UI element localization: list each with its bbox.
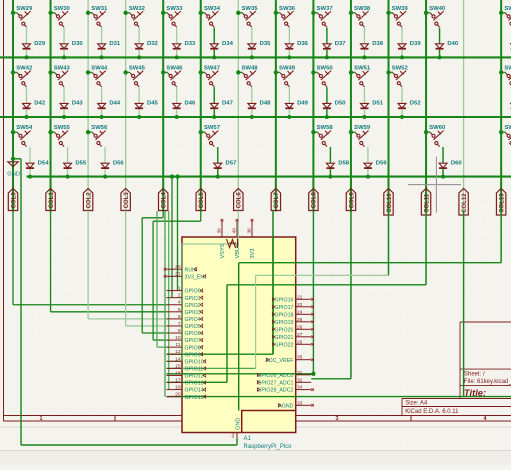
wire drop to GPIO11 row [255, 275, 257, 368]
svg-text:GPIO20: GPIO20 [274, 327, 293, 333]
svg-text:D59: D59 [376, 160, 388, 166]
switch SW54 [17, 131, 30, 147]
key cell SW47/D47 [199, 70, 203, 74]
diode D56 [101, 163, 109, 168]
key cell SW44/D44 [86, 70, 90, 74]
pin 34 GPIO28_ADC2 [296, 389, 312, 391]
switch SW42 [17, 71, 30, 87]
wire diode to row bus [329, 169, 331, 177]
svg-text:D39: D39 [410, 41, 422, 47]
svg-text:GPIO9: GPIO9 [185, 352, 201, 358]
svg-text:GPIO8: GPIO8 [185, 345, 201, 351]
key cell SW51/D51 [349, 70, 353, 74]
wire column COL0 [12, 0, 14, 212]
svg-text:SW56: SW56 [91, 125, 108, 131]
svg-text:16: 16 [175, 370, 181, 376]
sheet border bottom double line with zone ticks [4, 415, 511, 417]
junction diode D36 on bus [287, 55, 291, 59]
svg-text:COL10: COL10 [387, 193, 393, 213]
svg-text:SW48: SW48 [242, 65, 259, 71]
wire switch to diode [138, 28, 140, 44]
diode D44 [98, 103, 106, 108]
junction diode D32 on bus [137, 55, 141, 59]
svg-text:SW36: SW36 [279, 6, 296, 12]
wire switch to diode [217, 147, 219, 163]
svg-text:GPIO6: GPIO6 [185, 331, 201, 337]
svg-text:File: 61key.kicad_sch: File: 61key.kicad_sch [464, 379, 511, 385]
junction diode D57 on bus [216, 175, 220, 179]
junction diode D29 on bus [25, 55, 29, 59]
svg-text:D58: D58 [338, 160, 350, 166]
svg-text:SW45: SW45 [129, 65, 146, 71]
svg-text:3V3: 3V3 [250, 249, 256, 259]
svg-text:D36: D36 [297, 41, 309, 47]
diode D31 [98, 44, 106, 49]
wire switch to diode [288, 28, 290, 44]
COL11 elbow to drop x=227 [425, 211, 427, 285]
svg-text:7: 7 [178, 321, 181, 327]
junction diode D50 on bus [325, 115, 329, 119]
junction diode D58 on bus [328, 175, 332, 179]
key cell SW61/D61 [499, 130, 503, 134]
key cell SW46/D46 [161, 70, 165, 74]
wire diode to row bus [363, 50, 365, 58]
key cell SW57/D57 [199, 130, 203, 134]
wire GPIO15 row crossing chip to right sheet edge [167, 396, 511, 398]
key cell SW39/D39 [386, 11, 390, 15]
chip bottom pin 3 GND [236, 433, 238, 438]
switch SW41 [506, 11, 511, 27]
key cell SW37/D37 [311, 11, 315, 15]
diode D45 [135, 103, 143, 108]
key cell SW60/D60 [424, 130, 428, 134]
svg-text:D60: D60 [451, 160, 463, 166]
wire diode to row bus [251, 50, 253, 58]
wire column COL11 [425, 0, 427, 212]
switch SW49 [280, 71, 293, 87]
pin 37 3V3_EN [167, 275, 183, 277]
svg-text:COL4: COL4 [162, 192, 168, 209]
wire GPIO12/GPIO26 shared row crossing chip to COL8 [167, 373, 314, 375]
pin 36 3V3 [251, 222, 253, 238]
svg-text:Size: A4: Size: A4 [405, 400, 428, 406]
svg-text:D40: D40 [447, 41, 459, 47]
wire switch to diode [251, 87, 253, 103]
wire GPIO27_ADC1 to COL9 [311, 378, 351, 380]
key cell SW53/D53 [499, 70, 503, 74]
wire column COL7 [275, 0, 277, 212]
global label COL5 [196, 189, 205, 211]
wire row bus ROW3 [0, 116, 511, 118]
global label COL2 [83, 189, 92, 211]
svg-text:COL7: COL7 [274, 192, 280, 209]
svg-text:SW53: SW53 [504, 65, 511, 71]
svg-text:SW52: SW52 [392, 65, 409, 71]
svg-text:COL13: COL13 [499, 193, 505, 213]
pin 29 GPIO22 [296, 343, 312, 345]
wire switch to diode [363, 87, 365, 103]
svg-text:40: 40 [232, 228, 238, 234]
key cell SW31/D31 [86, 11, 90, 15]
svg-text:GND: GND [235, 418, 241, 430]
pin 20 GPIO15 [167, 396, 183, 398]
key cell SW56/D56 [86, 130, 90, 134]
wire switch to diode [213, 87, 215, 103]
pin 6 GPIO4 [167, 318, 183, 320]
switch SW52 [393, 71, 406, 87]
svg-text:34: 34 [297, 385, 303, 391]
wire diode to row bus [176, 50, 178, 58]
svg-text:GPIO18: GPIO18 [274, 312, 293, 318]
key cell SW58/D58 [311, 130, 315, 134]
diode D47 [210, 103, 218, 108]
key cell SW45/D45 [123, 70, 127, 74]
junction diode D39 on bus [400, 55, 404, 59]
svg-text:COL6: COL6 [237, 192, 243, 209]
junction diode D43 on bus [62, 115, 66, 119]
junction diode D48 on bus [250, 115, 254, 119]
svg-text:GPIO10: GPIO10 [185, 359, 204, 365]
wire diode to row bus [288, 50, 290, 58]
title block [402, 322, 511, 416]
wire column COL12 [463, 0, 465, 212]
svg-text:GPIO3: GPIO3 [185, 310, 201, 316]
junction bus ROW4 / GPIO0 wire [175, 174, 179, 178]
wire switch to diode [326, 28, 328, 44]
diode D46 [173, 103, 181, 108]
wire diode to row bus [29, 169, 31, 177]
switch SW30 [55, 11, 68, 27]
COL8 vertical straight down to GPIO26 row [312, 211, 314, 374]
svg-text:D54: D54 [38, 160, 50, 166]
key cell SW30/D30 [48, 11, 52, 15]
svg-text:D56: D56 [113, 160, 125, 166]
global label COL3 [121, 189, 130, 211]
pin 12 GPIO9 [167, 353, 183, 355]
pin 15 GPIO11 [167, 367, 183, 369]
svg-text:14: 14 [175, 356, 181, 362]
diode D60 [439, 163, 447, 168]
wire GPIO9 row crossing chip from COL7 drop x=273 [167, 353, 274, 355]
editing cursor crosshair [408, 184, 461, 186]
wire GPIO10 row from chip-edge drop [181, 244, 183, 361]
switch SW44 [93, 71, 106, 87]
COL6 via chip-left-edge drop to GPIO10 [237, 211, 239, 245]
diode D51 [360, 103, 368, 108]
wire GND net down and across to chip pin 3 [13, 158, 21, 160]
svg-text:D49: D49 [297, 101, 309, 107]
svg-text:D48: D48 [260, 101, 272, 107]
svg-text:31: 31 [297, 370, 303, 376]
svg-text:GPIO16: GPIO16 [274, 297, 293, 303]
wire diode to row bus [363, 109, 365, 117]
svg-text:GPIO4: GPIO4 [185, 317, 201, 323]
switch SW35 [243, 11, 256, 27]
svg-text:SW44: SW44 [91, 65, 108, 71]
svg-text:SW34: SW34 [204, 6, 221, 12]
svg-text:1: 1 [40, 416, 43, 422]
global label COL1 [46, 189, 55, 211]
diode D32 [135, 44, 143, 49]
diode D40 [436, 44, 444, 49]
svg-text:4: 4 [178, 300, 181, 306]
wire column COL5 [200, 0, 202, 212]
svg-text:21: 21 [297, 294, 303, 300]
svg-text:SW55: SW55 [54, 125, 71, 131]
wire column COL1 [50, 0, 52, 212]
svg-text:35: 35 [297, 355, 303, 361]
global label COL12 [459, 189, 468, 216]
wire COL0 to GPIO2 [12, 211, 14, 305]
wire switch to diode [104, 147, 106, 163]
svg-text:SW30: SW30 [54, 6, 71, 12]
diode D42 [23, 103, 31, 108]
junction diode D37 on bus [325, 55, 329, 59]
junction diode D46 on bus [175, 115, 179, 119]
pin 27 GPIO21 [296, 336, 312, 338]
svg-text:SW37: SW37 [317, 6, 334, 12]
wire switch to diode [329, 147, 331, 163]
diode D38 [360, 44, 368, 49]
svg-text:SW61: SW61 [504, 125, 511, 131]
global label COL6 [234, 189, 243, 211]
junction bus ROW4 / GPIO1 wire [170, 174, 174, 178]
IC A1 RaspberryPi_Pico body [182, 237, 296, 433]
key cell SW54/D54 [11, 130, 15, 134]
svg-text:GPIO5: GPIO5 [185, 324, 201, 330]
pin 17 GPIO13 [167, 382, 183, 384]
wire switch to diode [367, 147, 369, 163]
svg-text:D50: D50 [335, 101, 347, 107]
switch SW55 [55, 131, 68, 147]
svg-text:SW60: SW60 [429, 125, 446, 131]
wire column COL9 [350, 0, 352, 212]
svg-text:D47: D47 [222, 101, 234, 107]
wire switch to diode [401, 87, 403, 103]
svg-text:D51: D51 [372, 101, 384, 107]
svg-text:D31: D31 [109, 41, 121, 47]
diode D52 [398, 103, 406, 108]
paper edge lines [0, 426, 511, 428]
switch SW58 [318, 131, 331, 147]
svg-text:15: 15 [175, 363, 181, 369]
wire switch to diode [213, 28, 215, 44]
wire COL7 over body [272, 237, 274, 354]
svg-text:20: 20 [175, 392, 181, 398]
pin 14 GPIO10 [167, 360, 183, 362]
svg-text:D52: D52 [410, 101, 422, 107]
svg-text:D57: D57 [226, 160, 238, 166]
svg-text:D45: D45 [147, 101, 159, 107]
wire diode to row bus [101, 50, 103, 58]
wire to GPIO8 [156, 211, 158, 347]
junction diode D51 on bus [362, 115, 366, 119]
svg-text:COL9: COL9 [349, 192, 355, 209]
svg-text:36: 36 [247, 228, 253, 234]
svg-text:22: 22 [297, 302, 303, 308]
wire diode to row bus [104, 169, 106, 177]
wire switch to diode [326, 87, 328, 103]
switch SW46 [168, 71, 181, 87]
pin 24 GPIO18 [296, 313, 312, 315]
key cell SW29/D29 [11, 11, 15, 15]
wire diode to row bus [26, 109, 28, 117]
wire switch to diode [67, 147, 69, 163]
wire switch to diode [288, 87, 290, 103]
wire diode to row bus [401, 50, 403, 58]
switch SW47 [205, 71, 218, 87]
wire GPIO11 row crossing chip from drop x=255.6 [167, 367, 256, 369]
svg-text:5: 5 [178, 307, 181, 313]
diode D34 [210, 44, 218, 49]
key cell SW34/D34 [199, 11, 203, 15]
switch SW29 [17, 11, 30, 27]
svg-text:D44: D44 [109, 101, 121, 107]
key cell SW48/D48 [236, 70, 240, 74]
junction diode D59 on bus [366, 175, 370, 179]
svg-text:33: 33 [297, 400, 303, 406]
wire switch to diode [26, 87, 28, 103]
pin 4 GPIO2 [167, 304, 183, 306]
diode D54 [26, 163, 34, 168]
wire COL1 to GPIO3 [50, 211, 52, 312]
key cell SW33/D33 [161, 11, 165, 15]
pin 10 GPIO7 [167, 339, 183, 341]
svg-text:SW33: SW33 [166, 6, 183, 12]
COL13 long elbow crossing to drop x=238.7 [500, 211, 502, 263]
svg-text:SW43: SW43 [54, 65, 71, 71]
diode D37 [323, 44, 331, 49]
pin 35 ADC_VREF [296, 359, 312, 361]
key cell SW32/D32 [123, 11, 127, 15]
pin 1 GPIO0 [167, 290, 183, 292]
svg-text:GPIO21: GPIO21 [274, 335, 293, 341]
svg-text:9: 9 [178, 328, 181, 334]
wire drop x=227 to GPIO13 row [226, 285, 228, 383]
COL12 vertical down to GPIO15 net line [463, 211, 465, 397]
pin 32 GPIO27_ADC1 [296, 381, 312, 383]
junction diode D52 on bus [400, 115, 404, 119]
svg-text:GPIO17: GPIO17 [274, 305, 293, 311]
svg-text:SW59: SW59 [354, 125, 371, 131]
wire diode to row bus [288, 109, 290, 117]
wire COL4 drop [162, 211, 164, 218]
svg-text:37: 37 [175, 271, 181, 277]
junction diode D34 on bus [212, 55, 216, 59]
svg-text:COL1: COL1 [49, 192, 55, 209]
svg-text:1: 1 [178, 286, 181, 292]
switch SW38 [355, 11, 368, 27]
junction diode D35 on bus [250, 55, 254, 59]
svg-text:SW58: SW58 [317, 125, 334, 131]
switch SW39 [393, 11, 406, 27]
global label COL4 [159, 189, 168, 211]
wire switch to diode [101, 28, 103, 44]
svg-text:Sheet: /: Sheet: / [464, 371, 485, 377]
global label COL0 [8, 189, 17, 211]
svg-text:SW38: SW38 [354, 6, 371, 12]
pin 26 GPIO20 [296, 328, 312, 330]
key cell SW38/D38 [349, 11, 353, 15]
wire column COL3 [125, 0, 127, 212]
diode D58 [326, 163, 334, 168]
pin 11 GPIO8 [167, 346, 183, 348]
key cell SW36/D36 [274, 11, 278, 15]
pin 2 GPIO1 [167, 297, 183, 299]
pin 31 GPIO26_ADC0 [296, 374, 312, 376]
svg-text:26: 26 [297, 324, 303, 330]
svg-text:D30: D30 [72, 41, 84, 47]
svg-text:GPIO12: GPIO12 [185, 374, 204, 380]
key cell SW55/D55 [48, 130, 52, 134]
wire COL5 drop [200, 211, 202, 222]
svg-text:GND: GND [7, 172, 20, 178]
pin 9 GPIO6 [167, 332, 183, 334]
wire diode to row bus [67, 169, 69, 177]
key cell SW43/D43 [48, 70, 52, 74]
svg-text:SW29: SW29 [16, 6, 33, 12]
svg-text:SW54: SW54 [16, 125, 33, 131]
svg-text:SW39: SW39 [392, 6, 409, 12]
svg-text:27: 27 [297, 332, 303, 338]
pin 40 VBUS [236, 222, 238, 238]
svg-text:AGND: AGND [278, 403, 293, 409]
svg-text:D29: D29 [34, 41, 46, 47]
pin 19 GPIO14 [167, 389, 183, 391]
junction GND on COL0 wire [11, 157, 15, 161]
svg-text:RUN: RUN [185, 267, 197, 273]
COL9 vertical straight down to GPIO27 row [350, 211, 352, 379]
svg-text:GPIO11: GPIO11 [185, 366, 204, 372]
diode D59 [364, 163, 372, 168]
svg-text:GPIO15: GPIO15 [185, 395, 204, 401]
wire switch to diode [401, 28, 403, 44]
junction diode D55 on bus [66, 175, 70, 179]
svg-text:GPIO26_ADC0: GPIO26_ADC0 [257, 373, 293, 379]
svg-text:ADC_VREF: ADC_VREF [265, 358, 294, 364]
wire switch to diode [363, 28, 365, 44]
pin 30 RUN [167, 268, 183, 270]
wire switch to diode [63, 28, 65, 44]
svg-text:SW40: SW40 [429, 6, 446, 12]
junction diode D31 on bus [100, 55, 104, 59]
switch SW53 [506, 71, 511, 87]
svg-text:COL2: COL2 [86, 192, 92, 209]
wire GPIO13 row crossing chip from drop x=227 [167, 381, 228, 383]
wire diode to row bus [213, 50, 215, 58]
diode D36 [285, 44, 293, 49]
svg-text:GPIO7: GPIO7 [185, 338, 201, 344]
pin 22 GPIO17 [296, 306, 312, 308]
svg-text:GPIO13: GPIO13 [185, 381, 204, 387]
svg-text:VSYS: VSYS [220, 243, 226, 258]
svg-text:SW46: SW46 [166, 65, 183, 71]
wire diode to row bus [138, 50, 140, 58]
wire diode to row bus [251, 109, 253, 117]
pin 7 GPIO5 [167, 325, 183, 327]
svg-text:GPIO27_ADC1: GPIO27_ADC1 [257, 380, 293, 386]
switch SW45 [130, 71, 143, 87]
switch SW31 [93, 11, 106, 27]
wire switch to diode [26, 28, 28, 44]
switch SW59 [355, 131, 368, 147]
wire diode to row bus [138, 109, 140, 117]
svg-text:GPIO22: GPIO22 [274, 342, 293, 348]
junction diode D56 on bus [103, 175, 107, 179]
svg-text:COL3: COL3 [124, 192, 130, 209]
junction diode D44 on bus [100, 115, 104, 119]
svg-text:D37: D37 [335, 41, 347, 47]
